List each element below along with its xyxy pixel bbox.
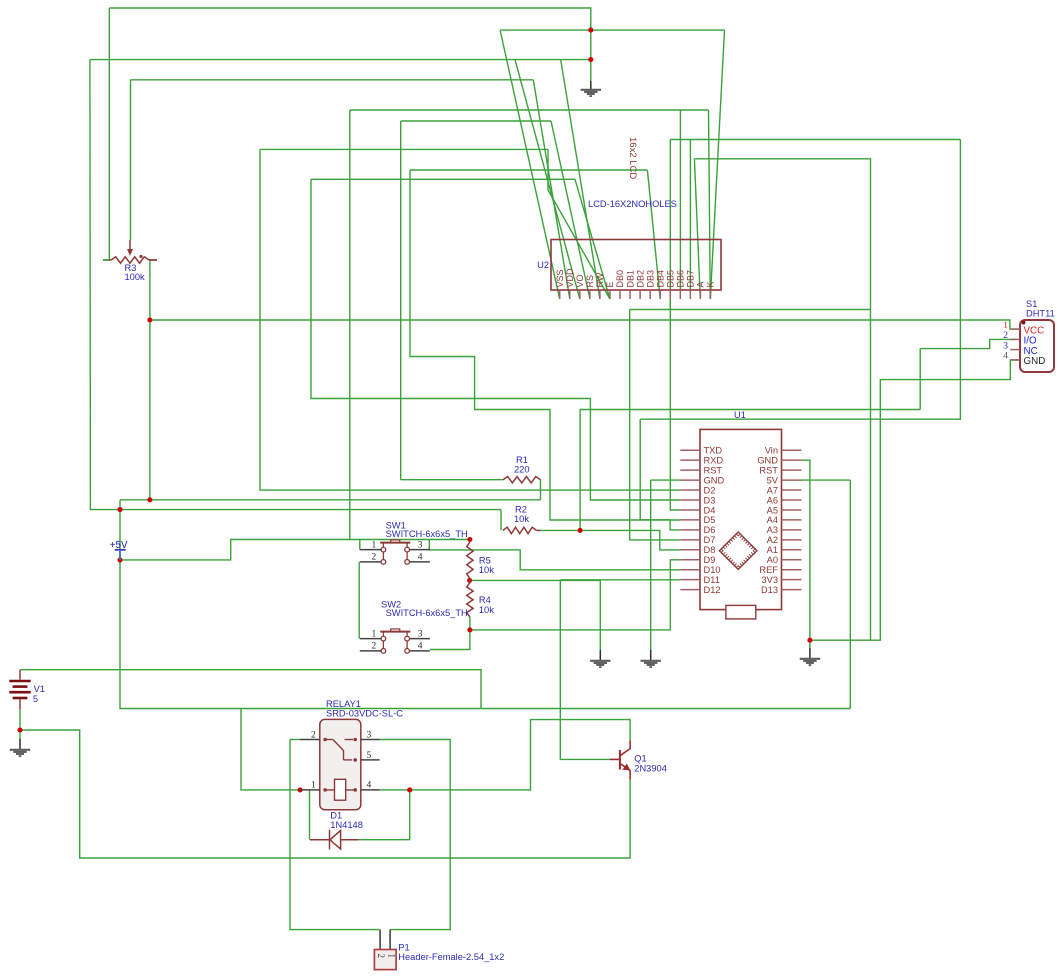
svg-text:5: 5 (367, 751, 372, 761)
svg-text:DB0: DB0 (615, 270, 625, 288)
svg-text:2: 2 (372, 553, 377, 563)
svg-text:DB7: DB7 (686, 270, 696, 288)
svg-text:V1: V1 (34, 684, 45, 694)
svg-text:SWITCH-6x6x5_TH: SWITCH-6x6x5_TH (386, 608, 468, 618)
svg-text:DHT11: DHT11 (1026, 309, 1055, 319)
svg-text:D3: D3 (704, 495, 716, 505)
svg-text:+5V: +5V (110, 540, 128, 551)
svg-text:D10: D10 (704, 565, 721, 575)
svg-text:100k: 100k (125, 272, 146, 282)
svg-text:RS: RS (585, 275, 595, 288)
svg-text:VDD: VDD (565, 268, 575, 288)
svg-text:U1: U1 (734, 410, 746, 420)
svg-text:S1: S1 (1026, 299, 1037, 309)
svg-text:A5: A5 (767, 505, 778, 515)
svg-text:1: 1 (372, 540, 377, 550)
svg-text:4: 4 (1003, 352, 1008, 362)
svg-text:SWITCH-6x6x5_TH: SWITCH-6x6x5_TH (386, 529, 468, 539)
svg-text:1: 1 (387, 954, 397, 959)
svg-text:DB4: DB4 (655, 270, 665, 288)
svg-text:Vin: Vin (765, 446, 778, 456)
svg-text:220: 220 (514, 464, 530, 474)
svg-text:10k: 10k (479, 605, 494, 615)
svg-text:GND: GND (1024, 356, 1046, 367)
svg-text:A2: A2 (767, 535, 778, 545)
svg-text:1: 1 (311, 781, 316, 791)
svg-text:D6: D6 (704, 525, 716, 535)
svg-text:A6: A6 (767, 495, 778, 505)
svg-text:16x2 LCD: 16x2 LCD (627, 137, 638, 179)
svg-text:D12: D12 (704, 585, 721, 595)
svg-text:D8: D8 (704, 545, 716, 555)
svg-text:2N3904: 2N3904 (634, 763, 667, 773)
svg-text:DB6: DB6 (676, 270, 686, 288)
svg-text:3: 3 (367, 730, 372, 740)
svg-text:D13: D13 (761, 585, 778, 595)
svg-text:5V: 5V (767, 475, 779, 485)
svg-text:D11: D11 (704, 575, 720, 585)
svg-text:REF: REF (759, 565, 778, 575)
svg-text:E: E (605, 281, 615, 287)
svg-text:3V3: 3V3 (761, 575, 778, 585)
svg-text:D9: D9 (704, 555, 716, 565)
svg-text:TXD: TXD (704, 446, 723, 456)
svg-text:4: 4 (418, 642, 423, 652)
svg-text:A7: A7 (767, 485, 778, 495)
svg-text:RXD: RXD (704, 455, 724, 465)
svg-text:2: 2 (376, 954, 386, 959)
svg-text:LCD-16X2NOHOLES: LCD-16X2NOHOLES (588, 199, 677, 209)
svg-text:1N4148: 1N4148 (330, 820, 363, 830)
svg-text:RW: RW (595, 272, 605, 287)
svg-text:1: 1 (1003, 321, 1008, 331)
svg-text:3: 3 (418, 629, 423, 639)
svg-text:A1: A1 (767, 545, 778, 555)
svg-text:1: 1 (372, 629, 377, 639)
svg-text:RST: RST (704, 465, 723, 475)
svg-text:4: 4 (418, 553, 423, 563)
svg-text:D4: D4 (704, 505, 716, 515)
svg-text:DB5: DB5 (665, 270, 675, 288)
svg-text:A: A (696, 281, 706, 287)
svg-text:2: 2 (1003, 331, 1008, 341)
svg-text:GND: GND (704, 475, 725, 485)
svg-text:3: 3 (1003, 341, 1008, 351)
svg-text:A4: A4 (767, 515, 778, 525)
svg-text:SRD-03VDC-SL-C: SRD-03VDC-SL-C (326, 708, 403, 718)
svg-text:VSS: VSS (555, 269, 565, 287)
svg-text:DB2: DB2 (635, 270, 645, 288)
svg-text:RST: RST (759, 465, 778, 475)
svg-text:K: K (706, 281, 716, 287)
svg-text:10k: 10k (514, 514, 529, 524)
svg-text:DB3: DB3 (645, 270, 655, 288)
svg-text:2: 2 (311, 730, 316, 740)
svg-text:D2: D2 (704, 485, 716, 495)
svg-text:R4: R4 (479, 595, 491, 605)
svg-text:Q1: Q1 (634, 754, 646, 764)
svg-text:R2: R2 (515, 505, 527, 515)
svg-text:D7: D7 (704, 535, 716, 545)
svg-text:Header-Female-2.54_1x2: Header-Female-2.54_1x2 (398, 952, 504, 962)
svg-text:3: 3 (418, 540, 423, 550)
svg-text:A3: A3 (767, 525, 778, 535)
svg-text:U2: U2 (537, 260, 549, 270)
svg-text:2: 2 (372, 642, 377, 652)
svg-text:VO: VO (575, 274, 585, 287)
svg-text:GND: GND (757, 455, 778, 465)
svg-text:10k: 10k (479, 565, 494, 575)
svg-text:4: 4 (367, 781, 372, 791)
svg-text:5: 5 (33, 694, 38, 704)
svg-text:A0: A0 (767, 555, 778, 565)
svg-text:DB1: DB1 (625, 270, 635, 288)
svg-text:D5: D5 (704, 515, 716, 525)
